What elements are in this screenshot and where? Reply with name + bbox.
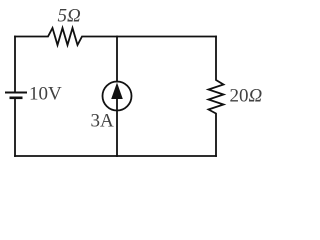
svg-text:20Ω: 20Ω <box>230 86 263 107</box>
svg-text:10V: 10V <box>29 84 62 105</box>
svg-text:5Ω: 5Ω <box>58 6 82 27</box>
svg-text:3A: 3A <box>91 111 115 132</box>
